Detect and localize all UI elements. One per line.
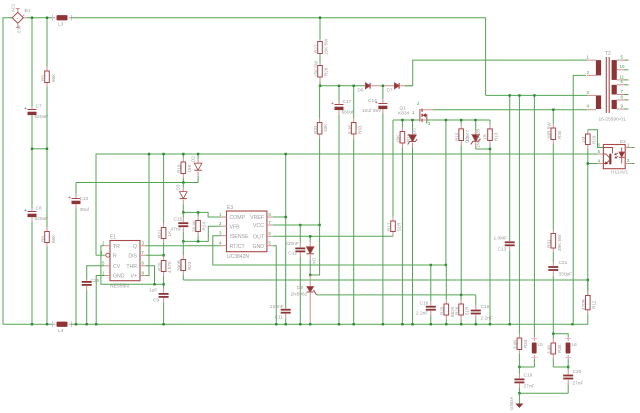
svg-text:V+: V+: [131, 274, 138, 280]
wire source node: [427, 120, 490, 123]
wire E3 GND to ground rail: [273, 246, 276, 325]
svg-text:C15: C15: [174, 217, 183, 223]
junction at 183.3,154: [182, 153, 184, 155]
svg-text:VCC: VCC: [253, 223, 264, 229]
wire AC input to left rail: [3, 18, 13, 325]
svg-text:1R: 1R: [483, 133, 488, 140]
svg-text:3: 3: [587, 90, 590, 95]
PWM IC E3 UC3842N: [221, 211, 273, 252]
junction at 430.8,324.25: [430, 323, 432, 325]
diode D2: [194, 154, 202, 183]
resistor R29 opto base: [586, 130, 591, 164]
wire drain to T2 pin 4: [433, 109, 587, 111]
junction at 534.4,95.4: [533, 94, 535, 96]
svg-text:R29: R29: [592, 135, 597, 144]
svg-text:VFB: VFB: [230, 224, 241, 230]
svg-text:8: 8: [142, 270, 145, 275]
junction at 461.1,294.9: [460, 294, 462, 296]
timer IC E1 NE555N: [104, 241, 146, 281]
capacitor C18: [471, 295, 481, 324]
wire 555 THR: [146, 266, 155, 285]
svg-text:2.2nF: 2.2nF: [481, 316, 493, 322]
junction at 149,154: [148, 153, 150, 155]
svg-text:16-25590-01: 16-25590-01: [599, 117, 627, 123]
capacitor C11: [281, 308, 291, 324]
wire COMP to C15 top node: [183, 212, 220, 217]
wire 555 DIS: [146, 254, 164, 256]
wire gate node: [393, 119, 420, 121]
resistor R35: [551, 334, 556, 367]
junction at 198.1,241.4: [197, 240, 199, 242]
svg-text:C8: C8: [36, 206, 42, 212]
wire VREF to VCC rail and C11: [285, 154, 287, 308]
svg-text:5: 5: [598, 149, 601, 154]
svg-text:8: 8: [621, 94, 624, 99]
svg-text:2: 2: [587, 70, 590, 75]
svg-text:68K: 68K: [51, 73, 56, 82]
svg-text:UC3842N: UC3842N: [227, 254, 249, 260]
svg-text:220nF: 220nF: [285, 241, 299, 247]
svg-text:R13: R13: [494, 132, 499, 141]
junction at 587.8,280: [587, 279, 589, 281]
svg-text:GND: GND: [113, 274, 125, 280]
svg-text:560uf: 560uf: [342, 110, 355, 116]
svg-text:+: +: [68, 195, 71, 201]
svg-text:5.1K: 5.1K: [347, 124, 352, 134]
svg-text:ISENSE: ISENSE: [230, 234, 250, 240]
svg-text:D2: D2: [191, 156, 196, 162]
resistor R34: [517, 95, 522, 367]
junction at 519.4,95.4: [518, 94, 520, 96]
capacitor C9: [159, 284, 169, 324]
svg-text:3.9K: 3.9K: [547, 344, 552, 354]
svg-text:L6: L6: [572, 342, 578, 348]
junction at 163.6,324.25: [162, 323, 164, 325]
snubber resistor R30: [551, 110, 556, 150]
wire D8 to R13 bottom: [476, 148, 490, 150]
wire VFB node: [183, 226, 220, 241]
resistor R8: [45, 225, 50, 324]
svg-text:R8: R8: [41, 236, 46, 242]
junction at 300.3,225: [299, 224, 301, 226]
wire 555 CV to C25: [87, 266, 104, 280]
svg-text:5: 5: [621, 55, 624, 60]
wire opto LED cathode: [631, 163, 634, 165]
wire 555 reset to VCC rail: [96, 254, 104, 256]
junction at 553.3,109.7: [552, 109, 554, 111]
svg-text:R17: R17: [387, 222, 392, 231]
svg-text:6: 6: [598, 143, 601, 148]
junction at 572.5,324.25: [571, 323, 573, 325]
junction at 154.5,284.3: [153, 283, 155, 285]
svg-text:D5: D5: [412, 128, 417, 134]
wire opto emitter node: [588, 163, 598, 165]
resistor R25: [444, 265, 449, 324]
junction at 32,324.25: [31, 323, 33, 325]
junction at 553.3,333.75: [552, 333, 554, 335]
junction at 47,17.75: [46, 17, 48, 19]
resistor R28: [319, 54, 321, 66]
resistor R31: [551, 230, 556, 263]
junction at 96.2,324.25: [95, 323, 97, 325]
junction at 382.9,85.8: [382, 85, 384, 87]
wire DC bus top: [27, 17, 54, 19]
svg-text:L3: L3: [58, 22, 64, 28]
resistor R23: [181, 241, 186, 280]
junction at 475.4,120: [474, 119, 476, 121]
capacitor C7: [31, 18, 33, 107]
wire ISENSE: [213, 236, 446, 265]
junction at 402.4,120: [401, 119, 403, 121]
junction at 339,85.8: [338, 85, 340, 87]
svg-text:620uF: 620uF: [35, 114, 49, 120]
junction at 461.2,324.25: [460, 323, 462, 325]
svg-text:C25: C25: [91, 278, 100, 284]
junction at 353.7,324.25: [353, 323, 355, 325]
junction at 339,324.25: [338, 323, 340, 325]
wire analog ground tie: [519, 392, 568, 394]
svg-text:470R: 470R: [581, 298, 586, 310]
svg-text:CV: CV: [113, 264, 121, 270]
junction at 86.7,324.25: [86, 323, 88, 325]
resistor R33: [351, 86, 356, 324]
wire emitter node down to feedback: [587, 164, 589, 296]
svg-text:8: 8: [268, 212, 271, 217]
junction at 353.7,85.8: [353, 85, 355, 87]
resistor R17 gate drive: [391, 120, 396, 236]
svg-text:R31: R31: [547, 239, 552, 248]
junction at 509.7,95.4: [509, 94, 511, 96]
svg-text:D9: D9: [297, 285, 303, 291]
capacitor C12: [295, 225, 305, 324]
svg-text:L4: L4: [58, 328, 64, 334]
capacitor C16: [426, 265, 436, 324]
svg-text:D7: D7: [387, 88, 393, 93]
junction at 276.25,324.25: [275, 323, 277, 325]
junction at 509.7,324.25: [509, 323, 511, 325]
svg-text:1: 1: [219, 212, 222, 217]
transformer T2: [587, 57, 624, 113]
wire L3 to clamp and transformer corner: [71, 18, 486, 96]
svg-text:4: 4: [219, 241, 222, 246]
svg-text:5: 5: [102, 261, 105, 266]
svg-text:620uF: 620uF: [35, 216, 49, 222]
svg-text:C21: C21: [559, 260, 568, 266]
svg-text:1.0MF: 1.0MF: [494, 236, 508, 242]
svg-text:C14: C14: [368, 98, 377, 104]
svg-text:15K 5W: 15K 5W: [314, 60, 319, 77]
junction at 519.4,367: [518, 366, 520, 368]
svg-text:2.2nF: 2.2nF: [416, 311, 428, 317]
zener diode D8: [471, 120, 481, 149]
svg-text:C10: C10: [80, 196, 89, 202]
svg-text:R25: R25: [440, 306, 445, 315]
svg-text:1: 1: [587, 55, 590, 60]
svg-text:3: 3: [142, 241, 145, 246]
wire 555 V+ to VCC rail: [146, 154, 149, 276]
svg-text:2N5062: 2N5062: [291, 292, 308, 298]
resistor R15: [459, 120, 464, 295]
diode D3: [180, 183, 188, 213]
resistor R27: [319, 18, 321, 42]
resistor R19: [181, 154, 186, 183]
svg-text:27nF: 27nF: [524, 384, 535, 390]
svg-text:39K 5W: 39K 5W: [557, 234, 562, 251]
junction at 285.7,217: [285, 216, 287, 218]
svg-text:R30: R30: [557, 130, 562, 139]
capacitor C10: [68, 183, 81, 325]
svg-text:3: 3: [219, 231, 222, 236]
svg-text:R32: R32: [313, 125, 318, 134]
junction at 198.1,154: [197, 153, 199, 155]
bridge rectifier B1: [9, 8, 27, 28]
wire thyristor gate to R26: [317, 294, 476, 296]
wire C7 to C8: [31, 116, 33, 212]
svg-text:47nF: 47nF: [171, 227, 182, 233]
junction at 412.5,120: [411, 119, 413, 121]
svg-text:R35: R35: [557, 344, 562, 353]
svg-text:+: +: [331, 101, 334, 107]
diode D7: [394, 83, 413, 89]
svg-text:H11AV1: H11AV1: [611, 170, 628, 176]
wire OUT to gate resistor: [273, 235, 393, 237]
svg-text:VREF: VREF: [250, 215, 264, 221]
svg-text:C11: C11: [275, 315, 284, 321]
junction at 475.8,324.25: [475, 323, 477, 325]
svg-text:E3: E3: [227, 205, 233, 211]
resistor R26: [459, 295, 464, 324]
capacitor C13: [509, 95, 511, 241]
svg-text:18K: 18K: [187, 163, 192, 172]
junction at 446.3,324.25: [445, 323, 447, 325]
svg-text:R24: R24: [202, 222, 207, 231]
wire R29 to opto base: [588, 130, 604, 148]
svg-text:COMP: COMP: [230, 215, 246, 221]
wire clamp node: [320, 85, 365, 87]
svg-text:26.4K: 26.4K: [192, 219, 197, 232]
wire VCC to D4 cathode jog: [310, 225, 319, 275]
wire source node to ISENSE: [445, 120, 447, 265]
junction at 319.6,225: [318, 224, 320, 226]
svg-text:D6: D6: [358, 88, 364, 93]
svg-text:E1: E1: [110, 235, 116, 241]
zener diode D5 gate: [408, 120, 418, 324]
svg-text:1: 1: [412, 110, 415, 115]
junction at 445.9,265: [445, 264, 447, 266]
capacitor C14: [375, 86, 388, 324]
svg-text:2: 2: [417, 101, 420, 106]
svg-text:220nF: 220nF: [270, 304, 284, 310]
junction at 402.4,324.25: [401, 323, 403, 325]
wire cap balance tie: [32, 148, 47, 150]
junction at 587.8,163.5: [587, 162, 589, 164]
wire 555 GND to ground rail: [96, 276, 104, 325]
resistor R24: [196, 212, 201, 241]
junction at 490,149: [489, 148, 491, 150]
svg-text:20R 5W: 20R 5W: [546, 122, 551, 139]
junction at 310.2,324.25: [309, 323, 311, 325]
resistor R12: [586, 280, 591, 324]
svg-text:330pF: 330pF: [559, 272, 573, 278]
junction at 300.3,324.25: [299, 323, 301, 325]
junction at 32,17.75: [31, 17, 33, 19]
svg-text:DIS: DIS: [128, 254, 137, 260]
wire opto LED anode: [631, 147, 634, 149]
junction at 430.8,265: [430, 264, 432, 266]
svg-text:1uF: 1uF: [149, 288, 157, 294]
svg-text:R20: R20: [157, 262, 162, 271]
svg-text:R34: R34: [523, 339, 528, 348]
svg-text:51R: 51R: [397, 222, 402, 231]
svg-text:OUT: OUT: [253, 235, 265, 241]
junction at 412.5,324.25: [411, 323, 413, 325]
inductor L6: [565, 337, 571, 368]
junction at 163.6,284.3: [162, 283, 164, 285]
junction at 163.6,154: [162, 153, 164, 155]
svg-text:B1: B1: [25, 8, 31, 14]
capacitor C25: [82, 280, 92, 325]
svg-text:390R: 390R: [177, 259, 182, 271]
junction at 76,324.25: [75, 323, 77, 325]
svg-text:+: +: [24, 106, 27, 112]
svg-text:T2: T2: [605, 51, 611, 57]
svg-text:TR: TR: [113, 244, 120, 250]
wire T2 secondary stubs: [624, 59, 629, 61]
capacitor C19: [514, 367, 524, 393]
svg-text:C20: C20: [573, 369, 582, 375]
wire VCC node: [273, 224, 320, 226]
junction at 163.6,255.2: [162, 254, 164, 256]
resistor R13 current sense: [488, 120, 493, 324]
wire ground rail right: [71, 323, 588, 325]
svg-text:5: 5: [268, 241, 271, 246]
capacitor C15: [178, 212, 188, 241]
junction at 183.3,241.4: [182, 240, 184, 242]
svg-text:2: 2: [219, 221, 222, 226]
junction at 445.9,120: [445, 119, 447, 121]
svg-text:R5: R5: [41, 75, 46, 81]
wire VCC rail mid: [96, 154, 597, 255]
svg-text:1N5342B: 1N5342B: [476, 129, 481, 148]
capacitor C21: [548, 263, 558, 334]
svg-text:3.9K: 3.9K: [513, 339, 518, 349]
wire T2 pin2 to ground rail: [573, 75, 586, 324]
junction at 32,148.8: [31, 148, 33, 150]
svg-text:C7: C7: [36, 104, 42, 110]
ground GNDA: [518, 393, 520, 403]
svg-text:10: 10: [620, 64, 625, 69]
svg-text:C18: C18: [481, 304, 490, 310]
wire D7 to T2 pin 1: [405, 60, 587, 86]
svg-text:RT/CT: RT/CT: [230, 244, 246, 250]
svg-text:68K: 68K: [51, 234, 56, 243]
svg-text:GNDA: GNDA: [509, 396, 514, 410]
junction at 519.4,393.2: [518, 392, 520, 394]
svg-text:R21: R21: [157, 229, 162, 238]
svg-text:R23: R23: [187, 261, 192, 270]
svg-text:15K 5W: 15K 5W: [324, 38, 329, 55]
svg-text:C19: C19: [524, 373, 533, 379]
wire ground rail: [3, 323, 53, 325]
resistor R16 gate pulldown: [400, 120, 405, 324]
svg-text:4: 4: [587, 104, 590, 109]
wire feedback long bottom: [183, 279, 588, 281]
junction at 183.3,212.4: [182, 211, 184, 213]
thyristor D9 2N5062: [307, 275, 317, 324]
svg-text:Q: Q: [133, 244, 137, 250]
junction at 320,17.75: [319, 17, 321, 19]
svg-text:R19: R19: [177, 164, 182, 173]
inductor L3: [53, 15, 72, 21]
junction at 47,148.8: [46, 148, 48, 150]
svg-text:R15: R15: [455, 132, 460, 141]
junction at 47,324.25: [46, 323, 48, 325]
svg-text:R12: R12: [592, 300, 597, 309]
svg-text:1M: 1M: [581, 136, 586, 143]
junction at 310.2,275: [309, 274, 311, 276]
wire output filter bottom tie: [553, 366, 568, 368]
svg-text:D3: D3: [176, 184, 181, 190]
inductor L5: [531, 95, 537, 367]
svg-text:C17: C17: [343, 99, 352, 105]
svg-text:27nF: 27nF: [573, 381, 584, 387]
svg-text:10uf 35V: 10uf 35V: [362, 108, 382, 114]
svg-text:2: 2: [102, 241, 105, 246]
wire L5 R34 bottom tie: [519, 366, 534, 368]
wire output filter top node: [553, 334, 568, 337]
svg-text:C9: C9: [153, 298, 159, 304]
svg-text:4: 4: [598, 159, 601, 164]
diode D4 bootstrap: [306, 236, 314, 275]
svg-text:18K: 18K: [323, 123, 328, 132]
svg-text:R28: R28: [324, 67, 329, 76]
svg-text:AC2: AC2: [17, 25, 22, 34]
junction at 198.1,212.4: [197, 211, 199, 213]
resistor R20: [161, 255, 166, 284]
resistor R32: [317, 86, 322, 225]
svg-text:7: 7: [268, 220, 271, 225]
svg-text:7: 7: [142, 250, 145, 255]
svg-text:51R: 51R: [465, 306, 470, 315]
junction at 285.7,154: [285, 153, 287, 155]
wire snubber mid node: [76, 182, 198, 184]
wire B+ to T2 pin 3: [486, 94, 587, 96]
svg-text:K834: K834: [398, 111, 410, 117]
svg-text:E2: E2: [620, 139, 626, 145]
svg-text:3: 3: [428, 121, 431, 126]
svg-text:4.57K: 4.57K: [167, 260, 172, 273]
svg-text:1: 1: [102, 270, 105, 275]
svg-text:D4: D4: [312, 258, 317, 264]
svg-text:R: R: [113, 254, 117, 260]
junction at 568.2,367: [567, 366, 569, 368]
svg-text:7: 7: [621, 89, 624, 94]
junction at 490,324.25: [489, 323, 491, 325]
svg-text:L5: L5: [538, 342, 544, 348]
wire R30 to R31: [552, 150, 554, 230]
svg-text:R33: R33: [357, 125, 362, 134]
svg-text:39uf: 39uf: [80, 207, 90, 213]
svg-text:R27: R27: [314, 44, 319, 53]
resistor R5: [45, 18, 50, 149]
inductor L4: [53, 321, 72, 327]
svg-text:AC1: AC1: [11, 3, 16, 12]
svg-text:D8: D8: [465, 137, 470, 143]
wire 555 TR under-box: [101, 246, 164, 285]
svg-text:C13: C13: [498, 247, 507, 253]
wire 555 Q to UC3842 RT/CT: [146, 245, 221, 247]
capacitor C20: [563, 367, 573, 393]
